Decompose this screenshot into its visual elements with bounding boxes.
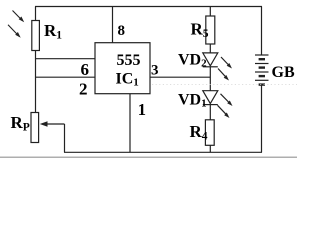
resistor R4: [205, 120, 214, 146]
svg-text:GB: GB: [272, 64, 295, 81]
LED VD1: [203, 91, 233, 118]
resistor R5: [206, 16, 215, 44]
svg-text:8: 8: [118, 23, 126, 39]
svg-text:6: 6: [81, 60, 90, 79]
svg-text:1: 1: [138, 100, 146, 119]
wire: VD2 to VD1: [209, 67, 211, 91]
wire: left rail top corner to R1: [35, 7, 37, 22]
wire: right rail top to battery: [261, 7, 263, 56]
wire: RP wiper down to bottom rail: [64, 124, 66, 152]
timer IC1 555 box: [95, 43, 150, 94]
wire: bottom rail: [64, 151, 262, 153]
svg-text:2: 2: [79, 80, 88, 99]
wire: R4 to bottom rail: [209, 145, 211, 152]
svg-text:555: 555: [117, 52, 141, 69]
battery GB: [255, 55, 269, 85]
wire: battery to bottom rail: [261, 85, 263, 153]
wire: pin 8 to top rail: [112, 7, 114, 43]
LED VD2: [203, 53, 232, 81]
wire: top rail: [35, 6, 262, 8]
wire: pin 1 to bottom rail: [129, 94, 131, 153]
wire: left rail R1 to RP: [35, 51, 37, 113]
potentiometer RP: [31, 113, 39, 143]
wire: pin 3 to LED column: [150, 76, 210, 78]
svg-text:3: 3: [151, 63, 159, 79]
photoresistor R1: [32, 21, 40, 51]
wire: R5 to VD2: [209, 44, 211, 53]
wire: top rail to R5: [209, 7, 211, 17]
wire: pin 6 to left rail: [36, 58, 96, 60]
light arrows for R1: [8, 11, 24, 38]
wire: VD1 to R4: [209, 105, 211, 120]
wire: pin 2 to left rail: [36, 76, 96, 78]
potentiometer RP wiper arrow: [46, 123, 65, 125]
